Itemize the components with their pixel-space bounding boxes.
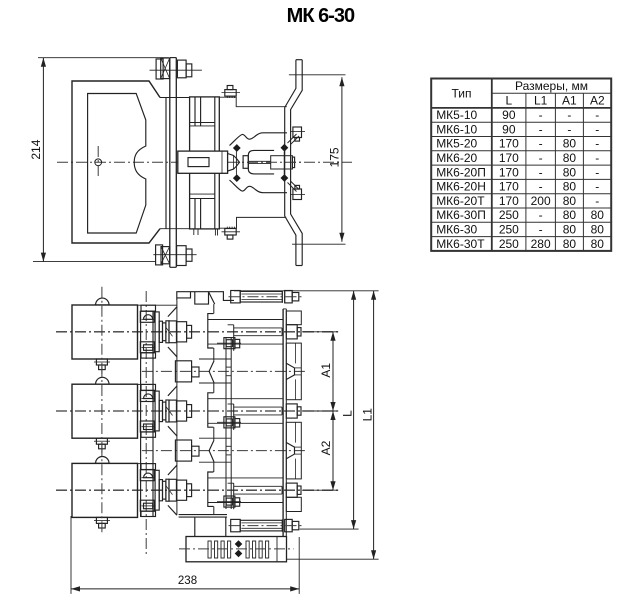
body bottom line to bracket <box>160 217 286 228</box>
small nut on body top <box>222 86 241 99</box>
pole recess pole 2 <box>208 393 214 427</box>
terminal comb <box>208 541 269 558</box>
svg-text:175: 175 <box>327 147 341 167</box>
slot stubs below body <box>194 229 218 236</box>
dimension 214 <box>29 58 169 262</box>
screw below box 3 <box>94 517 110 528</box>
box axis centerline 3 <box>101 445 103 535</box>
svg-text:-: - <box>595 137 599 151</box>
bolt head pole 3 <box>228 483 234 509</box>
centerline through terminal bolt <box>266 161 303 163</box>
svg-text:250: 250 <box>499 208 519 222</box>
right pole nut 3 <box>286 483 301 497</box>
armature crossbar <box>178 151 228 173</box>
svg-text:80: 80 <box>563 237 577 251</box>
contact stack pole 3 <box>155 470 192 510</box>
box axis centerline 1 <box>101 287 103 377</box>
svg-text:МК6-30: МК6-30 <box>436 223 477 237</box>
between-pole shelves <box>199 359 231 462</box>
svg-text:80: 80 <box>563 137 577 151</box>
svg-text:МК6-20: МК6-20 <box>436 151 477 165</box>
dimension A1 <box>302 332 338 411</box>
bolt head pole 1 <box>228 325 234 351</box>
pole centerlines (front view) <box>56 332 338 490</box>
bridge nut pole 1 <box>217 338 241 349</box>
terminal block centerline <box>179 548 294 550</box>
svg-text:80: 80 <box>563 180 577 194</box>
pole recess pole 3 <box>208 472 214 506</box>
dimension 238 <box>71 516 299 594</box>
small nut on body bottom <box>222 227 241 240</box>
svg-text:A2: A2 <box>590 94 605 108</box>
svg-text:МК6-20Н: МК6-20Н <box>436 180 486 194</box>
contact diamonds left pair <box>233 144 241 182</box>
dimension L1 <box>234 291 379 559</box>
dome screw on box 2 <box>94 377 110 384</box>
svg-text:-: - <box>539 122 543 136</box>
screw below box 1 <box>94 359 110 370</box>
clamp column cap lower pole 3 <box>141 511 156 516</box>
title МК 6-30 <box>287 5 355 27</box>
svg-text:-: - <box>539 208 543 222</box>
terminal clamp upper pole 2 <box>140 391 155 402</box>
svg-text:80: 80 <box>591 237 605 251</box>
svg-text:L: L <box>506 94 513 108</box>
dimension A2 <box>302 411 338 490</box>
box top edge extension pole 3 <box>138 463 154 465</box>
svg-text:-: - <box>539 165 543 179</box>
top mounting bolt M1 <box>150 58 202 79</box>
bottom mounting bolt M2 <box>153 245 196 266</box>
svg-text:-: - <box>595 194 599 208</box>
svg-text:214: 214 <box>29 139 43 159</box>
svg-text:90: 90 <box>502 122 516 136</box>
svg-text:Размеры, мм: Размеры, мм <box>515 79 588 93</box>
contact stack pole 1 <box>155 312 192 352</box>
svg-text:L1: L1 <box>534 94 548 108</box>
svg-text:80: 80 <box>591 223 605 237</box>
hatch near upper bracket nut <box>288 134 300 145</box>
hatch near lower bracket nut <box>288 181 300 192</box>
svg-text:-: - <box>595 180 599 194</box>
chute mounting hole <box>95 146 102 179</box>
between-pole centerlines <box>142 371 305 450</box>
bracket nut upper <box>290 127 305 141</box>
svg-text:80: 80 <box>563 223 577 237</box>
pole channel pole 1 <box>208 320 283 345</box>
svg-text:-: - <box>595 165 599 179</box>
svg-text:МК6-20П: МК6-20П <box>436 165 486 179</box>
dome screw on box 1 <box>94 298 110 305</box>
dimension L <box>300 291 359 529</box>
svg-text:80: 80 <box>563 151 577 165</box>
dimensions table <box>431 79 611 251</box>
svg-text:-: - <box>539 137 543 151</box>
pole recess pole 1 <box>208 314 214 348</box>
pole channel pole 2 <box>208 399 283 424</box>
support outline upper wave <box>230 133 288 146</box>
box top edge extension pole 2 <box>138 383 154 385</box>
svg-text:-: - <box>567 122 571 136</box>
between-pole terminal block ym=450.6 <box>175 440 199 461</box>
terminal clamp lower pole 1 <box>140 342 155 353</box>
svg-text:МК6-10: МК6-10 <box>436 122 477 136</box>
dimension 175 <box>289 75 346 244</box>
svg-text:80: 80 <box>563 165 577 179</box>
comb diamonds <box>235 540 243 557</box>
arc chute box pole 1 <box>72 305 138 359</box>
terminal clamp lower pole 3 <box>140 500 155 511</box>
screw below box 2 <box>94 438 110 449</box>
clamp column barriers <box>141 311 153 517</box>
support outline lower wave <box>230 180 288 193</box>
svg-text:170: 170 <box>499 180 519 194</box>
mounting bracket Z-profile <box>285 60 303 266</box>
chamber horn pole 2 <box>168 386 177 436</box>
between-pole terminal block ym=371.4 <box>175 361 199 382</box>
svg-text:L: L <box>340 410 354 417</box>
terminal clamp upper pole 3 <box>140 470 155 481</box>
svg-text:МК6-20Т: МК6-20Т <box>436 194 485 208</box>
bridge nut pole 3 <box>217 496 241 507</box>
main horizontal centerline (side view) <box>57 161 352 163</box>
svg-text:-: - <box>539 108 543 122</box>
svg-text:А1: А1 <box>319 363 333 378</box>
clamp column cap lower pole 1 <box>141 353 156 358</box>
svg-text:238: 238 <box>178 575 197 587</box>
mounting plate (vertical) <box>170 58 177 268</box>
contact bridge bars <box>226 338 231 509</box>
svg-text:МК 6-30: МК 6-30 <box>287 5 355 27</box>
svg-text:-: - <box>595 122 599 136</box>
svg-text:-: - <box>595 108 599 122</box>
bridge nut pole 2 <box>217 417 241 428</box>
arc chute box pole 3 <box>72 463 138 517</box>
body top line to bracket <box>160 97 287 107</box>
svg-text:90: 90 <box>502 108 516 122</box>
svg-text:-: - <box>539 223 543 237</box>
svg-text:МК5-10: МК5-10 <box>436 108 477 122</box>
clamp column cap upper pole 2 <box>141 384 156 390</box>
svg-text:280: 280 <box>531 237 551 251</box>
svg-text:80: 80 <box>563 208 577 222</box>
central body left wall <box>176 300 178 514</box>
svg-text:170: 170 <box>499 137 519 151</box>
arc chute inner contour <box>88 94 146 234</box>
svg-text:МК6-30П: МК6-30П <box>436 208 486 222</box>
bridge tie bands <box>226 367 231 455</box>
right pole nut 1 <box>286 325 301 339</box>
magnet body block <box>190 97 220 229</box>
svg-text:200: 200 <box>531 194 551 208</box>
body bottom face <box>179 515 227 537</box>
arc chute box pole 2 <box>72 384 138 438</box>
terminal pads right <box>286 311 301 512</box>
clamp column cap upper pole 1 <box>141 305 156 311</box>
moving contact tip <box>228 154 240 172</box>
dome screw on box 3 <box>94 457 110 464</box>
terminal clamp lower pole 2 <box>140 421 155 432</box>
pad bell ym=371.4 <box>286 343 301 400</box>
svg-text:А2: А2 <box>319 440 333 455</box>
top mounting bolt (front view) <box>229 291 303 303</box>
right mounting plate (front view) <box>283 309 286 537</box>
svg-text:L1: L1 <box>360 408 374 422</box>
svg-text:МК6-30Т: МК6-30Т <box>436 237 485 251</box>
chamber horn pole 3 <box>168 465 177 515</box>
svg-text:250: 250 <box>499 223 519 237</box>
pad bell ym=450.6 <box>286 422 301 479</box>
svg-text:80: 80 <box>563 194 577 208</box>
svg-text:170: 170 <box>499 165 519 179</box>
clamp column centerline <box>145 291 147 557</box>
box top edge extension pole 1 <box>138 304 177 306</box>
arc chute outer outline <box>72 81 166 243</box>
svg-text:МК5-20: МК5-20 <box>436 137 477 151</box>
central body spine <box>213 304 215 514</box>
spine chevrons between poles <box>209 361 214 462</box>
svg-text:170: 170 <box>499 151 519 165</box>
box axis centerline 2 <box>101 366 103 456</box>
chamber horn pole 1 <box>168 307 177 357</box>
terminal clamp upper pole 1 <box>140 311 155 322</box>
fixed contact block <box>243 150 295 174</box>
svg-text:250: 250 <box>499 237 519 251</box>
svg-text:-: - <box>567 108 571 122</box>
svg-text:170: 170 <box>499 194 519 208</box>
svg-text:-: - <box>539 180 543 194</box>
clamp column cap upper pole 3 <box>141 464 156 470</box>
contact stack pole 2 <box>155 391 192 431</box>
svg-text:-: - <box>539 151 543 165</box>
bolt head pole 2 <box>228 404 234 430</box>
clamp column cap lower pole 2 <box>141 432 156 437</box>
contact diamonds right pair <box>281 144 289 182</box>
bottom mounting bolt (front view) <box>229 519 303 531</box>
svg-text:A1: A1 <box>562 94 577 108</box>
right pole nut 2 <box>286 404 301 418</box>
pole channel pole 3 <box>208 478 283 503</box>
bracket nut lower <box>290 185 305 199</box>
svg-text:-: - <box>595 151 599 165</box>
svg-text:Тип: Тип <box>451 87 471 101</box>
coil terminal block <box>186 537 287 562</box>
svg-text:80: 80 <box>591 208 605 222</box>
central body top face <box>177 292 234 304</box>
